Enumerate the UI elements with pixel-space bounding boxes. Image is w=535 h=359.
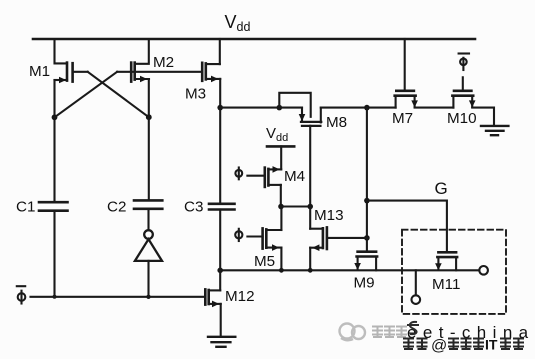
- wire: cross-couple diagonal M1 gate to M2 source node: [88, 72, 149, 117]
- wire: M1 source down to C1: [53, 80, 55, 202]
- transistor M13: [310, 227, 327, 251]
- watermark: [340, 324, 366, 341]
- power rail Vdd: [33, 38, 475, 41]
- node: M3 source / top bus junction: [217, 105, 223, 111]
- node: M4 source junction: [278, 204, 284, 210]
- wire: M13 gate lead: [327, 237, 367, 239]
- wire: G branch to M11 gate: [367, 201, 447, 252]
- clock label phi-bar bottom left: [17, 286, 26, 303]
- node: C1 on rail: [53, 295, 57, 299]
- clock label phi at M4 gate: [235, 168, 242, 180]
- wire: phi to M5 gate: [247, 235, 262, 237]
- node: top bus to G-line junction: [364, 105, 370, 111]
- svg-text:M5: M5: [254, 253, 275, 270]
- wire: Vdd rail to M2 drain: [135, 39, 149, 64]
- svg-text:C2: C2: [107, 199, 126, 216]
- capacitor C2: [134, 200, 162, 208]
- svg-text:G: G: [435, 179, 448, 198]
- clock label phi-bar above M10: [459, 54, 469, 71]
- svg-text:IT: IT: [485, 337, 498, 353]
- wire: C2 bottom to inverter: [147, 209, 149, 230]
- wire: M8 gate feedback loop: [279, 93, 310, 117]
- transistor M10: [452, 91, 475, 108]
- wire: Vdd rail to M3 drain: [219, 39, 221, 64]
- svg-text:M3: M3: [185, 86, 206, 103]
- svg-text:M10: M10: [447, 110, 477, 127]
- transistor M3: [202, 63, 220, 82]
- wire: phi-bar rail: [31, 296, 206, 298]
- transistor M2: [131, 63, 149, 83]
- node: M8 gate-down junction: [307, 204, 313, 210]
- wire: Vdd rail to M7 gate: [404, 39, 406, 89]
- wire: inverter output to phi-bar rail: [147, 261, 149, 297]
- wire: bottom bus down to M12 drain: [219, 270, 221, 290]
- wire: stub to terminal S: [415, 270, 417, 295]
- node: M13 gate junction: [364, 235, 370, 241]
- node: cross-couple to M2 source: [146, 114, 152, 120]
- wire: node down to M5 drain: [280, 207, 282, 231]
- transistor M5: [263, 228, 282, 251]
- wire: M8 gate down to M4/M5/M13 node: [309, 126, 311, 207]
- capacitor C1: [39, 202, 68, 211]
- capacitor C3: [209, 204, 235, 210]
- wire: cross-couple diagonal M2 gate to M1 source node: [55, 72, 118, 118]
- transistor M12: [205, 289, 220, 307]
- wire: G line down from top bus to M9 gate: [366, 108, 368, 251]
- node: inverter output on rail: [146, 295, 150, 299]
- node G junction: [364, 198, 370, 204]
- wire: C1 bottom to phi-bar rail: [53, 211, 55, 297]
- svg-text:C1: C1: [16, 199, 35, 216]
- wire: top bus right segment: [321, 107, 396, 109]
- svg-text:C3: C3: [184, 199, 203, 216]
- dashed box around M11: [402, 230, 506, 314]
- wire: M3 source down to C3: [219, 79, 221, 204]
- ground (below M12): [208, 337, 235, 347]
- wire: M4 source down to node: [280, 185, 282, 207]
- transistor M11: [435, 252, 457, 270]
- svg-text:M9: M9: [354, 275, 375, 292]
- wire: Vdd rail to M1 drain: [55, 39, 68, 63]
- svg-text:M2: M2: [153, 54, 174, 71]
- inverter: [135, 230, 162, 261]
- node: M8 gate loop junction: [277, 105, 283, 111]
- svg-text:@: @: [431, 338, 447, 355]
- transistor M1: [55, 63, 88, 84]
- wire: M5 source down to bottom bus: [280, 248, 282, 271]
- svg-text:M7: M7: [392, 110, 413, 127]
- terminal: drain output (open circle): [479, 266, 488, 275]
- svg-text:M13: M13: [314, 207, 344, 224]
- wire: C3 bottom to bottom bus: [219, 210, 221, 271]
- transistor M9: [354, 252, 377, 271]
- node: cross-couple to M1 source: [52, 114, 58, 120]
- transistor M7: [395, 91, 418, 108]
- wire: M10 source to ground: [472, 108, 494, 126]
- svg-text:M8: M8: [326, 114, 347, 131]
- wire: node down to M13 drain: [309, 207, 311, 229]
- ground (right of M10): [481, 126, 508, 135]
- wire: gate line M2 gate to M3 gate: [117, 71, 202, 73]
- svg-text:M1: M1: [29, 63, 50, 80]
- node: M13 source on bus: [308, 268, 313, 273]
- svg-text:M11: M11: [432, 276, 460, 293]
- wire: M13 source down to bottom bus: [309, 248, 311, 271]
- node: bottom bus left end: [217, 268, 223, 274]
- svg-text:M4: M4: [284, 168, 305, 185]
- clock label phi at M5 gate: [235, 229, 242, 241]
- wire: M2 source down to C2: [148, 79, 150, 200]
- terminal: S (open circle): [412, 295, 421, 304]
- transistor M4: [265, 166, 281, 187]
- node: M5 source on bus: [279, 268, 284, 273]
- wire: Vdd bar to M4 drain: [280, 146, 282, 169]
- svg-text:M12: M12: [225, 288, 255, 305]
- power Vdd bar above M4: [267, 145, 294, 148]
- wire: top bus left segment: [220, 107, 302, 109]
- wire: node segment to M13 drain branch: [281, 205, 310, 207]
- wire: phi-bar to M10 gate: [462, 77, 464, 89]
- wire: M12 source to ground: [220, 304, 222, 337]
- transistor M8: [299, 108, 322, 126]
- wire: bottom bus: [220, 269, 479, 271]
- wire: phi to M4 gate: [247, 175, 264, 177]
- wire: M7 drain to M10: [415, 107, 454, 109]
